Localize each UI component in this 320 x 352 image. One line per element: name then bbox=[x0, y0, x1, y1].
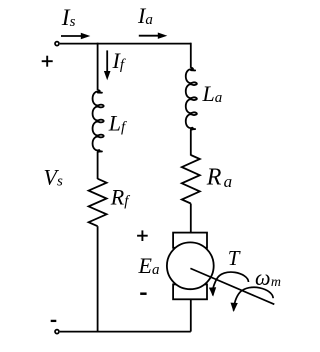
label + (Ea positive) bbox=[137, 235, 148, 237]
resistor Ra bbox=[182, 155, 200, 204]
current arrow Is bbox=[61, 35, 82, 37]
inductor La bbox=[186, 68, 197, 130]
svg-text:ωm: ωm bbox=[255, 265, 281, 290]
terminal node (top-left, + input) bbox=[55, 42, 59, 46]
rotation arrow T (torque direction) bbox=[213, 272, 249, 295]
wire top: terminal to armature branch bbox=[60, 43, 191, 45]
wire bottom: terminal to armature branch bbox=[60, 331, 191, 333]
svg-text:Ea: Ea bbox=[138, 253, 160, 278]
current arrow If bbox=[106, 50, 108, 72]
motor brush rectangle (top) bbox=[173, 233, 207, 248]
label - (source negative) bbox=[51, 320, 57, 322]
motor shaft bbox=[190, 268, 274, 304]
motor brush rectangle (bottom) bbox=[173, 284, 207, 299]
wire: Ra to motor bbox=[190, 204, 192, 234]
current arrow Ia bbox=[139, 35, 159, 37]
svg-text:Lf: Lf bbox=[108, 111, 127, 136]
svg-text:Ia: Ia bbox=[137, 3, 153, 28]
wire armature branch: top wire to La bbox=[190, 43, 192, 68]
label + (source positive) bbox=[42, 60, 53, 62]
wire: motor to bottom wire bbox=[190, 299, 192, 331]
svg-text:If: If bbox=[112, 48, 126, 73]
wire: Rf to bottom wire bbox=[97, 226, 99, 331]
label - (Ea negative) bbox=[140, 292, 146, 295]
rotation arrow omega_m (speed direction) bbox=[234, 287, 274, 310]
svg-text:La: La bbox=[202, 81, 223, 106]
svg-text:Is: Is bbox=[61, 5, 76, 31]
terminal node (bottom-left, - input) bbox=[55, 330, 59, 334]
svg-text:Ra: Ra bbox=[206, 165, 232, 192]
motor armature circle bbox=[167, 242, 214, 289]
resistor Rf bbox=[89, 179, 107, 227]
wire: Lf to Rf bbox=[97, 152, 99, 179]
svg-text:Vs: Vs bbox=[44, 164, 63, 189]
wire: La to Ra bbox=[190, 130, 192, 156]
svg-text:Rf: Rf bbox=[110, 184, 130, 209]
wire field branch: node to Lf bbox=[97, 43, 99, 90]
svg-text:T: T bbox=[228, 246, 241, 270]
inductor Lf bbox=[93, 90, 104, 152]
